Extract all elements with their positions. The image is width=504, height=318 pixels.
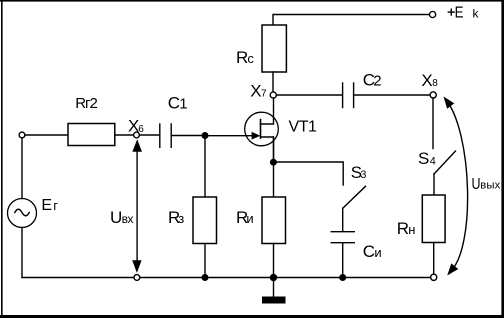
wire VT1 source down to node	[273, 137, 275, 162]
wire Ci to bottom rail	[342, 243, 344, 278]
capacitor Ci	[331, 232, 381, 261]
wire Ri to bottom rail	[273, 244, 275, 278]
svg-text:1: 1	[179, 96, 187, 113]
resistor Rg2	[68, 95, 115, 146]
wire C2 to X8	[354, 94, 430, 96]
svg-text:X: X	[421, 71, 432, 90]
resistor Rn	[397, 195, 445, 243]
wire S3 to Ci	[342, 208, 344, 231]
svg-text:4: 4	[430, 156, 436, 168]
svg-text:2: 2	[373, 72, 381, 89]
wire X7 to C2	[276, 94, 342, 96]
junction dot Ci rail	[339, 274, 346, 281]
svg-text:X: X	[250, 82, 261, 101]
wire input terminal to generator	[21, 138, 23, 199]
node X8	[421, 71, 438, 98]
svg-text:E: E	[455, 5, 464, 22]
svg-text:и: и	[374, 245, 381, 260]
transistor VT1	[245, 98, 317, 160]
svg-text:вх: вх	[122, 212, 134, 226]
junction gate node	[202, 132, 209, 139]
svg-text:c: c	[247, 51, 254, 66]
wire input to Rg2	[25, 134, 68, 136]
svg-text:U: U	[472, 176, 481, 193]
svg-text:7: 7	[261, 89, 267, 100]
wire C1 to gate node	[171, 135, 205, 137]
wire Rc to X7	[272, 72, 274, 92]
svg-text:С: С	[363, 242, 375, 261]
svg-text:з: з	[178, 211, 184, 226]
svg-text:k: k	[473, 7, 480, 21]
measurement arrow Uvyh	[444, 97, 501, 276]
wire gate node down to Rz	[204, 136, 206, 198]
terminal +Ek	[430, 5, 480, 22]
svg-text:Rг2: Rг2	[75, 95, 97, 112]
resistor Rz	[168, 197, 217, 244]
svg-text:8: 8	[432, 78, 438, 89]
switch S3	[343, 163, 367, 208]
junction source node	[270, 159, 277, 166]
svg-text:C: C	[168, 94, 180, 113]
svg-text:н: н	[408, 222, 415, 237]
svg-text:6: 6	[138, 124, 144, 135]
wire source node to S3	[273, 162, 343, 185]
svg-text:U: U	[110, 208, 122, 227]
wire X8 to S4	[432, 98, 434, 149]
svg-text:VT1: VT1	[289, 119, 318, 136]
svg-text:S: S	[418, 149, 429, 168]
switch S4	[418, 149, 456, 174]
junction dot ground node	[270, 274, 277, 281]
svg-text:г: г	[53, 198, 58, 213]
junction dot Rz rail	[202, 274, 209, 281]
node X7	[250, 82, 276, 101]
svg-text:вых: вых	[480, 180, 500, 192]
svg-text:E: E	[41, 197, 52, 214]
wire generator to bottom rail	[21, 228, 23, 278]
ground	[262, 278, 286, 304]
wire top rail to +Ek	[273, 15, 430, 26]
capacitor C2	[343, 71, 382, 108]
wire S4 to Rn	[433, 174, 435, 195]
capacitor C1	[160, 94, 188, 148]
svg-text:3: 3	[360, 169, 366, 181]
generator Eg	[8, 197, 59, 227]
bottom rail	[22, 277, 431, 279]
measurement arrow Uvh	[110, 139, 142, 280]
wire gate node to VT1	[205, 135, 252, 137]
resistor Ri	[236, 197, 286, 244]
wire X6 to C1	[139, 134, 159, 136]
svg-text:и: и	[246, 211, 253, 226]
output terminal node	[431, 274, 437, 280]
wire Rg2 to X6	[115, 134, 134, 136]
input terminal	[19, 132, 25, 138]
resistor Rc	[236, 25, 286, 72]
node X6	[128, 117, 144, 138]
wire Rn to output terminal	[433, 243, 435, 275]
wire Rz to bottom rail	[204, 244, 206, 278]
wire VT1 source node down to Ri	[273, 162, 275, 197]
